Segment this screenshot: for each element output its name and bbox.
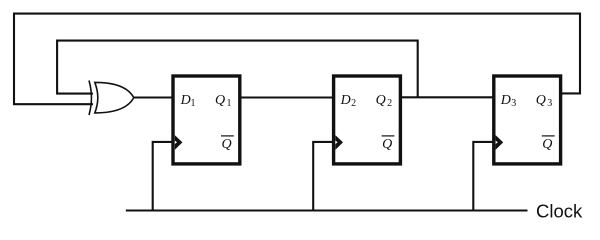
svg-text:Q: Q — [376, 93, 386, 108]
svg-text:Q: Q — [222, 137, 232, 152]
svg-text:1: 1 — [227, 98, 232, 109]
svg-text:2: 2 — [351, 98, 356, 109]
svg-text:D: D — [500, 93, 511, 108]
svg-text:Q: Q — [215, 93, 225, 108]
svg-text:D: D — [340, 93, 351, 108]
svg-text:3: 3 — [511, 98, 516, 109]
svg-text:Clock: Clock — [536, 201, 583, 222]
svg-text:Q: Q — [536, 93, 546, 108]
svg-text:2: 2 — [387, 98, 392, 109]
svg-text:Q: Q — [542, 137, 552, 152]
svg-text:1: 1 — [191, 98, 196, 109]
svg-text:Q: Q — [382, 137, 392, 152]
svg-text:3: 3 — [547, 98, 552, 109]
svg-text:D: D — [180, 93, 191, 108]
